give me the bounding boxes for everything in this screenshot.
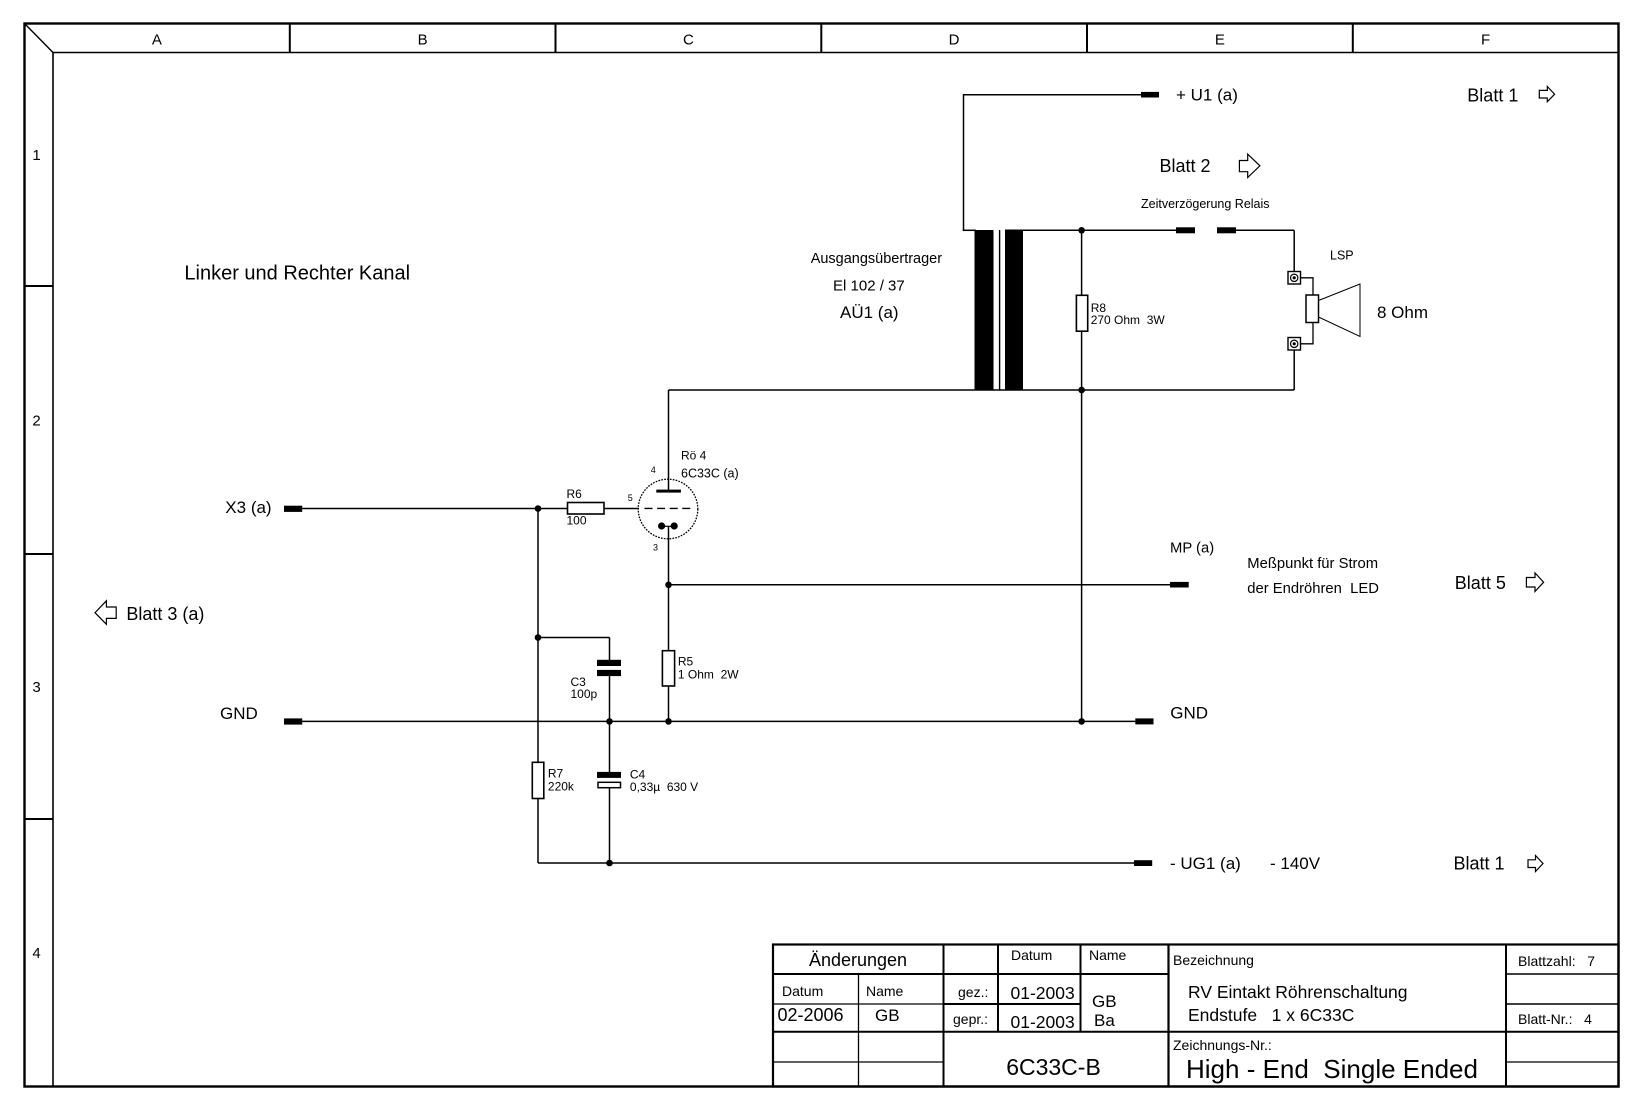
wire R7 bottom	[537, 799, 539, 864]
junction secondary top / R8	[1078, 227, 1085, 234]
svg-text:02-2006: 02-2006	[778, 1005, 844, 1025]
svg-text:4: 4	[651, 465, 656, 475]
wire grid node down	[537, 509, 539, 763]
svg-text:3: 3	[653, 543, 658, 553]
arrow Blatt 5	[1526, 573, 1543, 592]
relay contact right	[1217, 227, 1236, 233]
svg-text:+ U1 (a): + U1 (a)	[1176, 86, 1238, 105]
resistor R8	[1076, 295, 1087, 331]
svg-text:Änderungen: Änderungen	[809, 950, 907, 970]
svg-text:Blatt 1: Blatt 1	[1454, 853, 1505, 873]
svg-text:6C33C-B: 6C33C-B	[1006, 1054, 1101, 1080]
svg-text:Zeichnungs-Nr.:: Zeichnungs-Nr.:	[1173, 1037, 1272, 1053]
svg-text:Name: Name	[1089, 947, 1127, 963]
relay contact left	[1176, 227, 1195, 233]
svg-text:C: C	[683, 32, 694, 49]
wire +U1 feed	[964, 94, 1142, 96]
tube grid (dashed)	[645, 507, 695, 509]
svg-text:01-2003: 01-2003	[1011, 1012, 1075, 1032]
svg-text:Blatt 2: Blatt 2	[1160, 156, 1211, 176]
wire anode lead	[668, 390, 670, 491]
wire terminal bottom to driver	[1301, 323, 1314, 344]
svg-text:R6: R6	[567, 487, 583, 501]
wire R8 branch down to GND	[1081, 390, 1083, 721]
svg-text:4: 4	[32, 945, 40, 962]
wire X3 to R6	[302, 508, 568, 510]
wire primary top riser	[963, 94, 965, 231]
svg-text:100: 100	[567, 514, 587, 528]
wire R6 to grid	[604, 508, 639, 510]
speaker LSP driver	[1306, 295, 1319, 323]
resistor R6	[568, 503, 605, 515]
svg-text:GND: GND	[1170, 704, 1208, 723]
svg-text:Ausgangsübertrager: Ausgangsübertrager	[811, 251, 943, 267]
wire C3 tap horizontal	[538, 637, 610, 639]
svg-text:der Endröhren LED: der Endröhren LED	[1247, 581, 1379, 597]
svg-text:5: 5	[628, 493, 633, 503]
capacitor C4	[597, 772, 621, 778]
wire cathode node to R5	[668, 585, 670, 651]
wire relay to speaker	[1236, 229, 1294, 231]
transformer AÜ1 primary winding	[975, 230, 994, 390]
svg-text:1 Ohm 2W: 1 Ohm 2W	[678, 668, 739, 682]
wire primary top stub	[963, 229, 976, 231]
svg-text:Linker und Rechter Kanal: Linker und Rechter Kanal	[184, 262, 410, 284]
wire cathode lead	[668, 526, 670, 585]
svg-text:Blattzahl: 7: Blattzahl: 7	[1518, 953, 1595, 969]
speaker LSP terminal top	[1288, 272, 1301, 285]
junction C3 tap	[535, 634, 542, 641]
resistor R7	[532, 762, 544, 798]
svg-text:A: A	[152, 32, 162, 49]
wire secondary top to relay	[1005, 229, 1176, 231]
terminal -UG1	[1134, 860, 1152, 866]
transformer core	[999, 230, 1001, 390]
speaker LSP terminal bottom	[1288, 338, 1301, 351]
arrow Blatt 1 (top)	[1539, 87, 1554, 102]
wire C4 bottom lead	[609, 788, 611, 863]
junction bias / C4	[606, 860, 613, 867]
svg-text:Datum: Datum	[1011, 947, 1052, 963]
arrow Blatt 1 (bottom)	[1528, 856, 1543, 872]
wire speaker drop	[1293, 230, 1295, 271]
svg-text:GND: GND	[220, 704, 258, 723]
tube envelope	[638, 479, 698, 539]
junction grid node	[535, 505, 542, 512]
svg-text:GB: GB	[875, 1006, 900, 1025]
wire terminal top to driver	[1301, 278, 1314, 295]
terminal X3 (a)	[284, 506, 302, 512]
svg-text:E: E	[1215, 32, 1225, 49]
svg-text:Blatt-Nr.: 4: Blatt-Nr.: 4	[1518, 1011, 1592, 1027]
svg-text:100p: 100p	[571, 687, 598, 701]
arrow Blatt 2	[1239, 154, 1260, 177]
svg-text:Bezeichnung: Bezeichnung	[1173, 952, 1254, 968]
svg-text:R7: R7	[548, 767, 564, 781]
svg-text:Zeitverzögerung Relais: Zeitverzögerung Relais	[1141, 197, 1270, 211]
terminal GND right	[1135, 718, 1153, 724]
terminal GND left	[284, 718, 302, 724]
svg-text:8 Ohm: 8 Ohm	[1377, 303, 1428, 322]
svg-text:D: D	[949, 32, 960, 49]
wire GND to C4	[609, 721, 611, 772]
svg-text:B: B	[418, 32, 428, 49]
arrow Blatt 3 (a)	[95, 601, 116, 625]
svg-text:gepr.:: gepr.:	[953, 1011, 988, 1027]
svg-text:1: 1	[32, 147, 40, 164]
wire R8 top lead	[1081, 230, 1083, 295]
wire C3 bottom lead	[609, 676, 611, 721]
svg-text:Rö 4: Rö 4	[681, 449, 707, 463]
wire R5 to GND	[668, 686, 670, 721]
svg-text:Blatt 5: Blatt 5	[1455, 573, 1506, 593]
svg-text:GB: GB	[1092, 992, 1117, 1011]
tube cathode/heater dots	[663, 525, 673, 527]
svg-text:Name: Name	[866, 983, 904, 999]
transformer AÜ1 secondary winding	[1005, 230, 1023, 390]
junction anode rail / R8	[1078, 387, 1085, 394]
svg-text:Datum: Datum	[782, 983, 823, 999]
wire bias rail -UG1	[538, 862, 1134, 864]
junction GND / C3	[606, 718, 613, 725]
svg-text:6C33C (a): 6C33C (a)	[681, 467, 739, 481]
svg-text:270 Ohm 3W: 270 Ohm 3W	[1091, 313, 1166, 327]
svg-text:Endstufe 1 x 6C33C: Endstufe 1 x 6C33C	[1188, 1005, 1354, 1025]
tube anode plate	[656, 490, 681, 493]
svg-text:El 102 / 37: El 102 / 37	[833, 277, 905, 294]
junction GND / R5	[665, 718, 672, 725]
svg-text:High - End Single Ended: High - End Single Ended	[1186, 1054, 1478, 1084]
svg-text:0,33µ 630 V: 0,33µ 630 V	[630, 780, 698, 794]
svg-text:X3 (a): X3 (a)	[225, 498, 271, 517]
svg-text:3: 3	[32, 679, 40, 696]
svg-text:LSP: LSP	[1330, 249, 1354, 263]
svg-text:Meßpunkt für Strom: Meßpunkt für Strom	[1247, 556, 1378, 572]
TITLE BLOCK	[773, 945, 1619, 1087]
svg-text:2: 2	[32, 413, 40, 430]
svg-text:Ba: Ba	[1094, 1011, 1115, 1030]
svg-text:220k: 220k	[548, 780, 575, 794]
junction GND / R8 branch	[1078, 718, 1085, 725]
svg-text:Blatt 1: Blatt 1	[1467, 85, 1518, 105]
svg-text:- 140V: - 140V	[1270, 854, 1321, 873]
wire C3 top lead	[609, 638, 611, 661]
junction cathode node	[665, 582, 672, 589]
svg-text:01-2003: 01-2003	[1011, 983, 1075, 1003]
wire speaker bottom drop	[1293, 350, 1295, 390]
svg-text:AÜ1 (a): AÜ1 (a)	[840, 303, 899, 322]
terminal +U1	[1141, 92, 1159, 98]
svg-text:MP (a): MP (a)	[1170, 540, 1214, 556]
resistor R5	[662, 651, 674, 686]
svg-text:F: F	[1481, 32, 1490, 49]
wire measuring point MP	[669, 584, 1171, 586]
svg-text:- UG1 (a): - UG1 (a)	[1170, 854, 1241, 873]
wire GND rail	[302, 720, 1135, 722]
terminal MP (a)	[1170, 582, 1189, 588]
speaker LSP cone	[1319, 284, 1361, 337]
svg-text:Blatt 3 (a): Blatt 3 (a)	[126, 604, 204, 624]
capacitor C3	[597, 660, 621, 666]
svg-text:gez.:: gez.:	[958, 984, 988, 1000]
wire R8 bottom lead	[1081, 331, 1083, 390]
svg-text:RV Eintakt Röhrenschaltung: RV Eintakt Röhrenschaltung	[1188, 982, 1408, 1002]
wire anode rail (transformer bottom)	[669, 389, 1295, 391]
